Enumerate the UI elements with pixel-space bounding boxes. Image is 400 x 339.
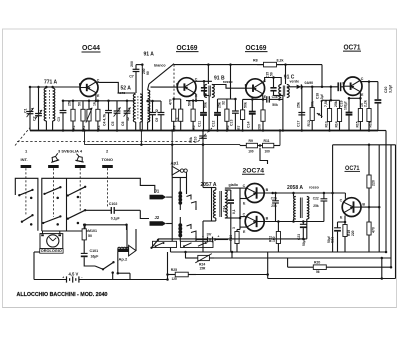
oscillator coil 52A left [133,94,135,131]
wire primary top lead [294,193,296,197]
wire base divider rail [330,99,340,101]
wire right edge [395,145,397,279]
label 2 [106,149,109,154]
IF transformer 91C primary [279,85,281,98]
wire bottom long [268,278,396,280]
svg-text:25k: 25k [313,204,319,208]
resistor R7 [237,99,247,131]
capacitor C24 [225,190,234,252]
label verde [290,79,300,83]
capacitor C10 below bus [199,129,207,146]
svg-text:470: 470 [372,227,376,233]
svg-text:R4: R4 [173,125,177,130]
AF bus L2 [185,257,391,259]
resistor R6 [222,99,230,132]
clock face [47,235,59,247]
wire secondary top to T5 [225,187,247,189]
svg-text:25k: 25k [147,107,151,113]
emitter rail OC169a [186,100,204,102]
IF transformer 91B secondary [212,85,214,98]
volume potentiometer R12 [307,86,315,131]
antenna coil 771A secondary [53,88,55,131]
wire sw join [84,224,87,231]
resistor R8 top [253,59,284,67]
supply rail top bianco segment [136,63,144,66]
svg-text:470: 470 [168,99,172,105]
svg-text:R12: R12 [307,120,311,126]
svg-text:verde: verde [290,79,300,83]
bias drop from R9 R11 junction [260,148,268,164]
switch box 2 [42,178,155,231]
wire speaker line [158,238,307,241]
svg-text:C7: C7 [129,75,134,79]
svg-text:16µF: 16µF [91,255,99,259]
wire T5 T6 link [237,188,247,229]
wire emitter rail [349,97,360,99]
label Ap2 [119,256,128,261]
svg-text:rosso: rosso [309,186,320,190]
svg-text:50k: 50k [189,137,193,143]
wire y274 lower [166,273,267,276]
contact dot 1 [30,197,33,226]
wire OC71a collector [360,80,378,83]
svg-text:56: 56 [316,270,320,274]
label C20 3,3µf [384,84,393,93]
label 91A winding 200 [142,68,150,75]
wire OC71b base out [361,206,379,208]
svg-text:C24: C24 [222,206,226,212]
svg-text:B: B [245,83,248,87]
IF transformer 91B core [209,86,210,97]
wire box top rail [333,144,396,146]
bell icon sveglia [49,153,60,162]
IF transformer 91A core line [141,65,143,131]
bus2 lower rail [85,144,241,147]
svg-text:8,2k: 8,2k [277,59,284,63]
wire rail to R6 C13 [230,65,232,99]
emitter rail OC44 [63,100,135,102]
svg-text:C: C [243,184,246,188]
svg-text:C22: C22 [313,197,319,201]
label C22 25k [313,197,319,208]
switch lever 3b [67,209,87,220]
resistor R13 [324,100,332,132]
resistor M101 [82,224,86,247]
switch cap INT [21,165,32,168]
label OROLOGIO [40,249,63,254]
IF transformer 91B primary [204,85,206,98]
svg-text:90: 90 [146,71,150,75]
wire clock left up [34,251,40,253]
dashed switch shaft 2 [107,168,109,207]
wire speaker top leads [127,225,136,251]
driver transformer secondary [225,190,227,218]
label C18 [316,93,324,102]
thermistor R24 [186,254,215,263]
jack switch contact lower [187,225,197,242]
wire output bottom rail [264,220,324,223]
svg-text:R11: R11 [264,139,270,143]
label C101 16µF [90,249,99,258]
svg-text:C4 4,7k: C4 4,7k [102,114,106,126]
switch lever 3a [67,186,87,197]
wire base OC169 first [151,86,178,88]
trimmer capacitor C6 [121,100,130,131]
svg-text:0A90: 0A90 [305,81,314,85]
svg-text:50k: 50k [243,102,247,108]
switch lever 2b [42,215,62,224]
svg-text:32: 32 [155,109,159,113]
switch lever M101 [95,261,115,270]
wire 91C secondary to diode [287,86,297,88]
wire primary bottom lead [294,219,296,222]
svg-text:rosso: rosso [223,80,234,84]
svg-text:M101: M101 [88,229,97,233]
dashed switch shaft 4 [79,168,81,212]
label 91 C [284,75,295,81]
svg-text:50: 50 [78,102,82,106]
svg-text:50k: 50k [203,102,207,108]
svg-text:100: 100 [248,150,254,154]
svg-text:C2: C2 [33,116,37,121]
choke upper [178,185,182,210]
svg-text:C1: C1 [24,108,28,113]
wire vert x379 [378,145,381,252]
svg-text:3: 3 [232,227,236,229]
capacitor C101 [81,247,88,262]
svg-text:B: B [79,83,82,87]
ground bus main [30,130,378,132]
svg-text:25k: 25k [271,204,277,208]
clock terminals [41,234,61,236]
trimmer capacitor C2 [33,87,43,131]
wire OC71b emitter [344,216,347,224]
svg-text:OC71: OC71 [344,44,361,51]
neutralizing capacitor C15 [265,72,283,96]
capacitor C21 [334,222,345,252]
wire R20 row [288,258,352,274]
transistor OC44 [79,78,100,98]
dashed switch shaft 3 [52,168,54,217]
transistor OC74 lower [243,212,269,234]
driver transformer primary [213,188,215,222]
svg-text:C6: C6 [121,121,125,126]
wire riser x267 [266,252,269,279]
wire Ap1 drop [186,172,188,194]
svg-text:OC169: OC169 [177,45,198,52]
svg-text:0,1µF: 0,1µF [111,217,120,221]
resistor R25 [168,268,197,281]
label TONO [102,157,113,162]
diode OA90 [297,84,302,89]
wire vert x391 [390,145,392,267]
resistor R19 [343,222,355,252]
svg-text:C11: C11 [197,121,201,127]
svg-text:+: + [202,235,204,239]
capacitor C14 [246,98,255,130]
label J1 [155,189,160,194]
svg-text:TONO: TONO [102,157,113,162]
svg-text:R23: R23 [229,235,233,241]
svg-text:C5: C5 [111,121,115,126]
svg-text:25k: 25k [334,101,338,107]
wire bottom rail y225 [85,224,128,230]
supply rail top main [174,63,322,66]
wire antenna top [29,86,81,89]
svg-text:R16: R16 [368,121,372,127]
antenna coil 771A core [49,90,51,119]
variable capacitor C5 [111,101,120,132]
label INT. [21,157,28,162]
capacitor C20 [375,82,382,131]
battery 4,5V [34,275,168,282]
capacitor C19 [340,97,353,130]
resistor R1 [68,100,76,132]
svg-text:R15: R15 [355,121,359,127]
resistor R17 above [367,144,376,209]
output transformer secondary [307,197,309,220]
wire switch bottom rail [42,230,88,232]
svg-text:1k: 1k [93,102,97,106]
svg-text:C12: C12 [211,121,215,127]
label rosso second [309,186,320,190]
svg-text:R14: R14 [335,121,339,127]
wire 3V to R23 [222,239,228,241]
svg-text:C: C [340,198,343,202]
label nero [118,91,127,95]
label Ap1 [171,161,180,166]
wire OC71a emitter [359,92,362,108]
resistor R5 [188,99,196,130]
svg-text:2058 A: 2058 A [287,185,303,191]
svg-text:J2: J2 [155,215,160,220]
label 2058 A [287,185,303,191]
wire tone line [84,209,112,211]
wire OC169b collector [263,78,282,85]
capacitor C23 [300,222,307,239]
caption ALLOCCHIO BACCHINI [17,292,108,298]
label 4,5 V [69,272,79,277]
label 1 [25,149,28,154]
label 771 A [44,80,58,86]
svg-text:R8: R8 [253,59,258,63]
svg-text:C101: C101 [90,249,99,253]
wire secondary bottom to speaker line [306,219,308,239]
oscillator coil 52A core [137,96,139,120]
svg-text:R5: R5 [192,125,196,130]
switch common wire [66,178,68,231]
IF transformer 91C secondary [287,85,289,98]
svg-text:OROLOGIO: OROLOGIO [41,249,62,253]
svg-text:C13: C13 [230,120,234,126]
svg-text:15R: 15R [200,266,207,270]
svg-text:C: C [243,213,246,217]
svg-text:50k: 50k [272,103,278,107]
output transformer core [300,198,302,219]
wire clock left drop [33,252,35,280]
IF transformer 91C core [283,86,284,97]
bus2 left riser [83,129,86,144]
svg-text:2,2k: 2,2k [364,100,368,107]
svg-text:7,5k: 7,5k [324,100,328,107]
label R24 15R [199,262,206,270]
svg-text:C8: C8 [147,118,151,122]
series capacitor C16 [264,95,283,107]
capacitor C7 [133,65,140,93]
svg-text:C20: C20 [384,87,388,93]
relay switch box right [181,241,214,247]
svg-text:3,3µf: 3,3µf [388,84,392,93]
transistor OC74 upper [243,184,269,206]
trimmer C4A [86,100,92,131]
wire 91B top feed [207,65,209,84]
wire 3V left [196,239,201,241]
wire AVC drop [330,87,333,102]
svg-text:91 A: 91 A [144,52,155,58]
bias battery 3V [201,232,222,243]
wire 91C bottom lead [282,96,285,132]
wire R7 C14 link [243,98,264,100]
label C23 50µf [297,234,306,246]
contact dot 2 [56,197,59,226]
svg-text:2OC74: 2OC74 [243,167,265,174]
svg-text:R9: R9 [249,139,253,143]
bell icon sveglia 2 [75,154,85,162]
switch lever 1b [21,214,34,223]
svg-text:OC169: OC169 [246,45,267,52]
svg-text:100: 100 [265,150,271,154]
capacitor C25 [272,193,279,222]
switch contact near speaker [150,239,159,249]
capacitor beside 91B [201,81,209,95]
svg-text:R20: R20 [314,261,320,265]
svg-text:4,5 V: 4,5 V [69,272,79,277]
wire x381 riser [381,257,384,280]
switch lever 2a [43,186,61,195]
svg-text:R3: R3 [97,125,101,130]
wire R24 rail [214,252,232,258]
svg-text:3 SVEGLIA 4: 3 SVEGLIA 4 [58,149,83,154]
wire speaker bottom lead [117,252,130,280]
resistor R14 [334,100,342,130]
wire tone to J2 [140,210,149,218]
svg-text:C3: C3 [57,117,61,121]
wire lever to battery line [111,271,114,279]
svg-text:200: 200 [258,124,262,130]
label 91 A [144,52,155,58]
choke lower [178,217,182,242]
label 0,1µF [111,217,120,221]
capacitor C17 [296,87,305,132]
label C24 0,1 [222,206,235,214]
capacitor C8 [147,100,156,131]
svg-text:50µf: 50µf [327,235,331,243]
coupling capacitor into base [338,82,343,91]
wire secondary bottom [225,217,241,220]
resistor R3 [93,100,101,132]
transistor OC169 first [176,78,198,98]
wire driver primary bottom [203,221,216,252]
jack switch contact upper [187,195,197,210]
label OC71 bottom [345,165,361,172]
label OC71 top [343,44,361,51]
wire wiper to C18 [322,100,331,118]
svg-text:R13: R13 [325,121,329,127]
capacitor C4 [102,100,112,131]
wire 91B secondary out [212,85,247,89]
resistor R22 [269,222,281,253]
label OC169 first [176,45,199,52]
resistor R23 [229,227,239,252]
label C25 25k [271,197,277,208]
wire R20 right link [352,266,392,269]
driver transformer core [220,191,222,217]
svg-text:ALLOCCHIO BACCHINI - MOD.: ALLOCCHIO BACCHINI - MOD. 2040 [17,292,108,298]
label C7 [129,75,134,79]
dashed gang link left [15,128,30,146]
relay switch box left [153,241,177,247]
capacitor C3 [57,100,66,132]
svg-text:C25: C25 [271,197,277,201]
svg-text:INT.: INT. [21,157,28,162]
wire L2 left link [184,251,187,258]
svg-text:25k: 25k [68,100,72,106]
svg-text:50: 50 [88,234,92,238]
label 91 B [214,76,225,82]
svg-text:50: 50 [269,72,273,76]
wire clock terminal stubs [43,231,60,234]
svg-text:nero: nero [118,91,127,95]
wire driver primary top [202,143,216,187]
wire jack block joins [172,178,186,186]
svg-text:C9: C9 [155,118,159,122]
svg-text:32: 32 [126,117,130,121]
label M101 50 [88,229,97,238]
wire OC71b collector [344,193,346,199]
jack J2 [150,221,173,226]
page bottom edge [3,307,397,309]
capacitor C22 [321,193,328,222]
antenna coil 771A primary [44,88,46,131]
resistor R11 [263,139,281,154]
dashed gang line [17,141,198,143]
svg-text:0,1: 0,1 [232,209,236,214]
svg-text:B: B [342,81,345,85]
label bianco [154,64,166,68]
output transformer primary [294,197,296,220]
switch lever 1a [18,189,34,197]
wire rail to R4 divider dashed [173,65,175,99]
capacitor C102 [111,207,140,214]
wire output top rail [264,192,345,195]
svg-text:220: 220 [372,180,376,186]
wire R6 C13 link [218,98,236,100]
svg-text:220: 220 [351,230,355,236]
switch cap TONO [102,165,113,168]
wire bus2 to jack [171,145,173,242]
capacitor C9 [155,101,164,131]
svg-text:C102: C102 [109,202,118,206]
wire detector line [301,86,339,89]
dashed gang link right [198,128,212,142]
clock box [40,234,63,249]
bus2 riser x141 [140,129,143,146]
svg-text:50k: 50k [188,100,192,106]
svg-text:3V: 3V [207,232,212,237]
driver transformer lead frame [211,188,213,222]
svg-text:102µf: 102µf [344,101,348,110]
IF transformer 91B bottom lead [208,96,211,132]
